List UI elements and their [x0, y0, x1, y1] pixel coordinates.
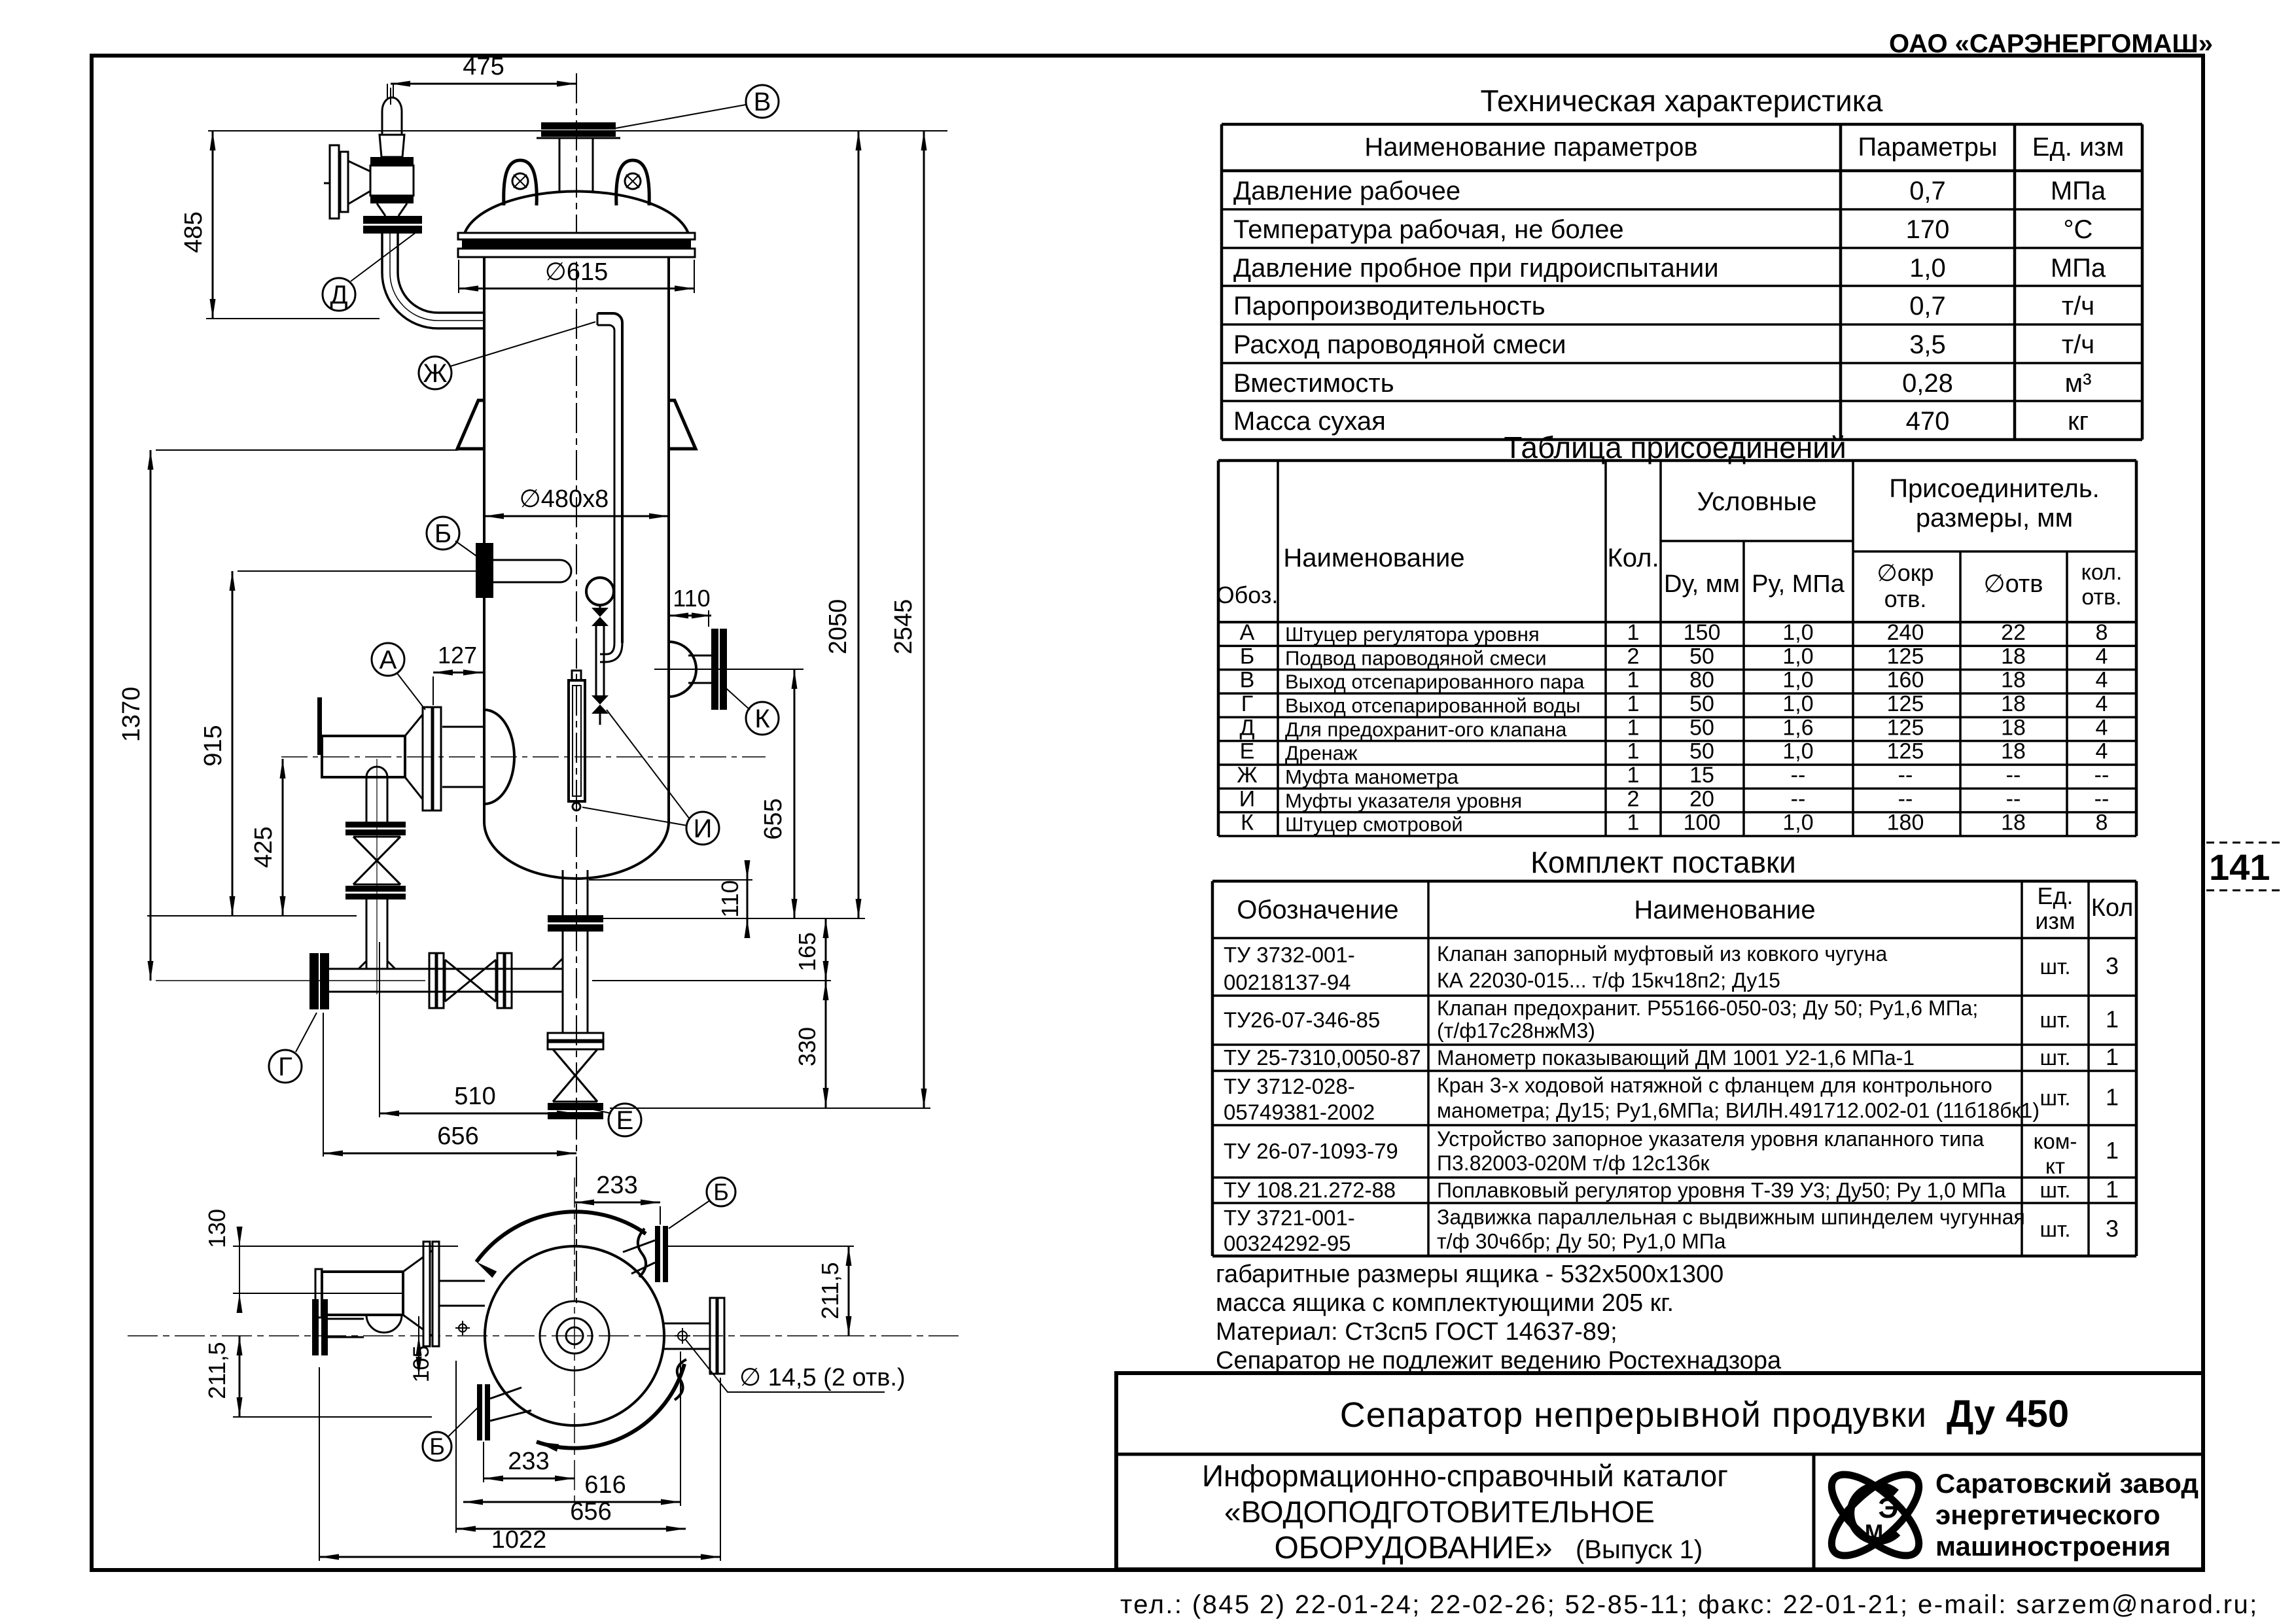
- svg-text:(Выпуск 1): (Выпуск 1): [1576, 1535, 1703, 1564]
- svg-text:энергетического: энергетического: [1935, 1499, 2161, 1530]
- dimension 165: [592, 918, 831, 981]
- svg-text:475: 475: [463, 53, 504, 80]
- svg-text:233: 233: [596, 1172, 637, 1199]
- svg-text:Кол: Кол: [2091, 894, 2134, 922]
- svg-text:Поплавковый регулятор уровня Т: Поплавковый регулятор уровня Т-39 У3; Ду…: [1437, 1179, 2006, 1202]
- label circle Zh: [419, 322, 595, 389]
- svg-text:шт.: шт.: [2040, 954, 2070, 979]
- svg-text:кол.: кол.: [2081, 560, 2123, 585]
- svg-text:4: 4: [2096, 691, 2108, 716]
- svg-text:В: В: [1240, 668, 1255, 693]
- svg-text:1: 1: [2106, 1043, 2119, 1070]
- plan dimension 211.5 right: [817, 1246, 852, 1336]
- svg-text:3,5: 3,5: [1909, 330, 1946, 359]
- svg-text:470: 470: [1906, 407, 1950, 436]
- svg-text:125: 125: [1887, 715, 1924, 740]
- svg-text:И: И: [1239, 786, 1255, 811]
- svg-text:150: 150: [1684, 620, 1721, 645]
- plan label B bottom: [423, 1408, 478, 1461]
- drain valve under A: [345, 759, 406, 994]
- svg-text:20: 20: [1689, 786, 1714, 811]
- svg-text:1: 1: [1627, 811, 1640, 835]
- svg-text:Сепаратор не подлежит ведению: Сепаратор не подлежит ведению Ростехнадз…: [1216, 1347, 1782, 1374]
- label circle D: [323, 230, 419, 311]
- svg-text:00218137-94: 00218137-94: [1224, 970, 1351, 994]
- svg-text:т/ф 30ч6бр; Ду 50; Ру1,0 МПа: т/ф 30ч6бр; Ду 50; Ру1,0 МПа: [1437, 1230, 1726, 1253]
- svg-text:Обоз.: Обоз.: [1216, 582, 1279, 608]
- svg-text:И: И: [694, 814, 713, 843]
- svg-text:Присоединитель.: Присоединитель.: [1889, 474, 2100, 503]
- svg-text:160: 160: [1887, 668, 1924, 693]
- svg-text:Задвижка параллельная с выдвиж: Задвижка параллельная с выдвижным шпинде…: [1437, 1205, 2025, 1229]
- plan dimension 130 left: [203, 1209, 458, 1313]
- svg-text:Pу, МПа: Pу, МПа: [1752, 570, 1845, 598]
- plan nozzle B top: [623, 1226, 854, 1282]
- svg-text:изм: изм: [2035, 907, 2075, 934]
- plan nozzle B bottom: [477, 1384, 531, 1440]
- svg-text:211,5: 211,5: [203, 1342, 230, 1399]
- svg-text:Ед. изм: Ед. изм: [2032, 133, 2124, 162]
- svg-text:--: --: [1898, 763, 1913, 788]
- bottom nozzle pipe: [548, 870, 603, 1033]
- svg-text:ТУ 3732-001-: ТУ 3732-001-: [1224, 943, 1355, 967]
- svg-text:2: 2: [1627, 786, 1640, 811]
- nozzle V top flange: [537, 122, 620, 193]
- svg-text:127: 127: [438, 642, 477, 669]
- title block main title: [1340, 1393, 2069, 1435]
- svg-text:Обозначение: Обозначение: [1237, 896, 1398, 924]
- title block catalog name: [1202, 1459, 1728, 1565]
- dimension 475: [391, 53, 576, 105]
- svg-text:отв.: отв.: [1884, 585, 1927, 612]
- dimension 915: [200, 571, 236, 916]
- dimension phi480x8: [484, 485, 669, 519]
- dimension 510: [380, 942, 576, 1117]
- svg-text:2: 2: [1627, 644, 1640, 669]
- level gauge I glass: [569, 671, 585, 811]
- svg-text:Сепаратор непрерывной продувки: Сепаратор непрерывной продувки: [1340, 1395, 1927, 1435]
- title block frame: [1116, 1373, 2203, 1569]
- svg-text:656: 656: [570, 1498, 611, 1526]
- dimension 110 bottom: [589, 860, 752, 938]
- label circle E: [588, 1104, 641, 1136]
- vessel vertical centerline: [576, 73, 577, 1303]
- svg-text:Температура рабочая, не более: Температура рабочая, не более: [1233, 215, 1624, 244]
- svg-text:Г: Г: [1241, 691, 1253, 716]
- svg-text:22: 22: [2001, 620, 2026, 645]
- svg-text:110: 110: [716, 880, 743, 917]
- svg-text:Ж: Ж: [1237, 763, 1257, 788]
- vessel top dome head: [465, 192, 688, 234]
- svg-text:В: В: [754, 88, 771, 116]
- svg-text:80: 80: [1689, 668, 1714, 693]
- inlet distribution pipe inside vessel: [238, 560, 571, 582]
- label circle A: [372, 643, 425, 710]
- table 3 title: [1530, 845, 1796, 879]
- outlet flange G: [309, 953, 329, 1009]
- svg-text:ТУ26-07-346-85: ТУ26-07-346-85: [1224, 1008, 1380, 1032]
- plan dimension 211.5 left: [203, 1336, 432, 1417]
- svg-text:--: --: [1791, 763, 1806, 788]
- phi 14.5 hole callout: [686, 1340, 906, 1392]
- lifting lug left: [504, 160, 537, 205]
- svg-text:130: 130: [203, 1209, 230, 1248]
- svg-text:1: 1: [1627, 739, 1640, 764]
- svg-text:∅ 14,5 (2 отв.): ∅ 14,5 (2 отв.): [739, 1364, 906, 1391]
- dimension 330: [794, 981, 829, 1108]
- svg-text:кг: кг: [2068, 407, 2089, 436]
- svg-text:Г: Г: [278, 1053, 292, 1081]
- svg-text:«ВОДОПОДГОТОВИТЕЛЬНОЕ: «ВОДОПОДГОТОВИТЕЛЬНОЕ: [1224, 1495, 1655, 1529]
- svg-text:Параметры: Параметры: [1858, 133, 1997, 162]
- label circle I: [582, 710, 719, 845]
- delivery set table: [1212, 881, 2136, 1256]
- support lug left: [457, 400, 484, 449]
- svg-text:2050: 2050: [824, 599, 852, 655]
- svg-text:К: К: [754, 705, 770, 733]
- svg-text:1: 1: [1627, 715, 1640, 740]
- svg-text:125: 125: [1887, 691, 1924, 716]
- table 1 title: [1481, 84, 1883, 118]
- svg-text:Подвод пароводяной смеси: Подвод пароводяной смеси: [1285, 646, 1547, 669]
- phone footer line: [1120, 1590, 2259, 1619]
- gauge valve upper: [592, 608, 609, 626]
- svg-text:Расход пароводяной смеси: Расход пароводяной смеси: [1233, 330, 1566, 359]
- table 2 title: [1504, 430, 1846, 464]
- svg-text:656: 656: [437, 1123, 478, 1150]
- dimension 425: [147, 759, 357, 916]
- svg-text:А: А: [1240, 620, 1255, 645]
- svg-text:(т/ф17с28нжМ3): (т/ф17с28нжМ3): [1437, 1019, 1595, 1043]
- svg-text:1,0: 1,0: [1782, 644, 1813, 669]
- svg-text:18: 18: [2001, 715, 2026, 740]
- dimension 2050: [592, 131, 865, 918]
- svg-text:шт.: шт.: [2040, 1178, 2070, 1202]
- svg-text:15: 15: [1689, 763, 1714, 788]
- svg-text:1: 1: [1627, 668, 1640, 693]
- vessel shell walls: [484, 257, 669, 822]
- svg-text:50: 50: [1689, 644, 1714, 669]
- svg-text:1: 1: [2106, 1176, 2119, 1203]
- svg-text:05749381-2002: 05749381-2002: [1224, 1100, 1375, 1125]
- svg-text:1: 1: [1627, 620, 1640, 645]
- plan dimension 616: [463, 1352, 680, 1506]
- table technical characteristics: [1222, 124, 2142, 440]
- svg-text:8: 8: [2096, 811, 2108, 835]
- steam swirl arrow bottom: [537, 1359, 686, 1452]
- svg-text:--: --: [2094, 763, 2110, 788]
- svg-text:Материал: Ст3сп5 ГОСТ 14637-89: Материал: Ст3сп5 ГОСТ 14637-89;: [1216, 1318, 1617, 1346]
- svg-text:ТУ 3712-028-: ТУ 3712-028-: [1224, 1074, 1355, 1098]
- svg-text:шт.: шт.: [2040, 1086, 2070, 1110]
- svg-text:4: 4: [2096, 644, 2108, 669]
- svg-text:Давление рабочее: Давление рабочее: [1233, 177, 1460, 205]
- dimension 110 K: [669, 585, 711, 627]
- svg-text:Д: Д: [330, 281, 347, 309]
- svg-text:141: 141: [2209, 846, 2270, 888]
- svg-text:Ж: Ж: [423, 359, 448, 388]
- svg-text:18: 18: [2001, 668, 2026, 693]
- svg-text:--: --: [2006, 763, 2021, 788]
- svg-text:МПа: МПа: [2051, 177, 2106, 205]
- svg-text:50: 50: [1689, 691, 1714, 716]
- svg-text:Для предохранит-ого клапана: Для предохранит-ого клапана: [1285, 718, 1567, 741]
- svg-text:Манометр показывающий ДМ 1001: Манометр показывающий ДМ 1001 У2-1,6 МПа…: [1437, 1046, 1915, 1070]
- svg-text:Условные: Условные: [1697, 487, 1816, 516]
- plan dimension 233 top: [574, 1172, 660, 1225]
- svg-text:Вместимость: Вместимость: [1233, 369, 1394, 398]
- svg-text:Наименование: Наименование: [1283, 544, 1464, 572]
- svg-text:ТУ 25-7310,0050-87: ТУ 25-7310,0050-87: [1224, 1045, 1421, 1070]
- sight nozzle K: [654, 629, 804, 710]
- svg-text:--: --: [1898, 786, 1913, 811]
- safety valve assembly D: [324, 84, 422, 234]
- svg-text:Клапан предохранит. Р55166-050: Клапан предохранит. Р55166-050-03; Ду 50…: [1437, 996, 1978, 1020]
- page number 141 box: [2206, 843, 2285, 890]
- svg-text:1,0: 1,0: [1782, 811, 1813, 835]
- svg-text:А: А: [380, 646, 397, 674]
- svg-text:4: 4: [2096, 668, 2108, 693]
- svg-text:К: К: [1241, 811, 1254, 835]
- svg-text:1,0: 1,0: [1782, 668, 1813, 693]
- svg-text:2545: 2545: [890, 599, 917, 655]
- svg-text:1,6: 1,6: [1782, 715, 1813, 740]
- dimension 1370: [118, 450, 458, 981]
- svg-text:м³: м³: [2065, 369, 2092, 398]
- plan vessel shell circle: [485, 1246, 664, 1425]
- svg-text:1,0: 1,0: [1782, 620, 1813, 645]
- svg-text:18: 18: [2001, 811, 2026, 835]
- svg-text:кт: кт: [2045, 1154, 2065, 1178]
- svg-text:3: 3: [2106, 1215, 2119, 1242]
- dimension phi615: [459, 258, 694, 293]
- vessel bottom elliptical head: [484, 822, 669, 879]
- svg-text:Паропроизводительность: Паропроизводительность: [1233, 292, 1545, 321]
- svg-text:Кол.: Кол.: [1607, 544, 1659, 572]
- svg-text:ТУ 108.21.272-88: ТУ 108.21.272-88: [1224, 1178, 1396, 1202]
- svg-text:Информационно-справочный катал: Информационно-справочный каталог: [1202, 1459, 1728, 1493]
- svg-text:Е: Е: [616, 1106, 634, 1135]
- svg-text:1370: 1370: [118, 687, 145, 742]
- svg-text:∅окр: ∅окр: [1877, 559, 1934, 586]
- table of connections: [1216, 461, 2136, 836]
- lifting lug right: [616, 160, 650, 205]
- svg-text:масса ящика с комплектующими 2: масса ящика с комплектующими 205 кг.: [1216, 1289, 1674, 1317]
- plan bolt hole right: [675, 1328, 690, 1344]
- svg-text:т/ч: т/ч: [2062, 292, 2094, 321]
- svg-text:4: 4: [2096, 715, 2108, 740]
- svg-text:Масса сухая: Масса сухая: [1233, 407, 1386, 436]
- svg-text:170: 170: [1906, 215, 1950, 244]
- svg-text:М: М: [1865, 1520, 1883, 1545]
- svg-text:отв.: отв.: [2081, 585, 2121, 610]
- svg-text:240: 240: [1887, 620, 1924, 645]
- svg-text:Dу, мм: Dу, мм: [1664, 570, 1740, 598]
- svg-text:Штуцер смотровой: Штуцер смотровой: [1285, 813, 1463, 836]
- plan flange G left: [312, 1299, 364, 1355]
- label circle G: [269, 1013, 317, 1083]
- pressure gauge manometer: [586, 578, 614, 608]
- support lug right: [669, 400, 696, 449]
- drain valve E: [548, 1033, 603, 1119]
- svg-text:18: 18: [2001, 739, 2026, 764]
- svg-text:Е: Е: [1240, 739, 1255, 764]
- svg-text:Муфты указателя уровня: Муфты указателя уровня: [1285, 789, 1522, 812]
- factory logo SEM: [1819, 1461, 1932, 1569]
- svg-text:П3.82003-020М т/ф 12с13бк: П3.82003-020М т/ф 12с13бк: [1437, 1151, 1710, 1175]
- svg-text:616: 616: [584, 1471, 626, 1499]
- svg-text:105: 105: [409, 1346, 434, 1383]
- svg-text:Б: Б: [1240, 644, 1254, 669]
- svg-text:шт.: шт.: [2040, 1008, 2070, 1032]
- svg-text:50: 50: [1689, 739, 1714, 764]
- girth flange pair: [458, 233, 695, 257]
- svg-text:50: 50: [1689, 715, 1714, 740]
- steam swirl arrow top: [476, 1212, 646, 1278]
- top reference extension line: [208, 130, 947, 131]
- gate valve on run: [429, 953, 512, 1008]
- plan sight nozzle stub right: [663, 1298, 724, 1374]
- svg-text:Б: Б: [713, 1179, 729, 1206]
- svg-text:18: 18: [2001, 644, 2026, 669]
- plan inner circles: [540, 1301, 609, 1370]
- svg-text:1,0: 1,0: [1782, 691, 1813, 716]
- svg-text:машиностроения: машиностроения: [1935, 1531, 2170, 1562]
- svg-text:1,0: 1,0: [1909, 254, 1946, 283]
- label circle V: [616, 85, 779, 128]
- bottom horizontal run pipe: [156, 958, 563, 992]
- plan nozzle A assembly: [315, 1242, 485, 1346]
- svg-text:125: 125: [1887, 739, 1924, 764]
- svg-text:4: 4: [2096, 739, 2108, 764]
- svg-text:100: 100: [1684, 811, 1721, 835]
- svg-text:0,28: 0,28: [1902, 369, 1953, 398]
- svg-text:1: 1: [2106, 1084, 2119, 1111]
- svg-text:110: 110: [673, 585, 710, 612]
- svg-text:Клапан запорный муфтовый из ко: Клапан запорный муфтовый из ковкого чугу…: [1437, 942, 1888, 966]
- svg-text:211,5: 211,5: [817, 1262, 843, 1319]
- svg-text:КА 22030-015... т/ф 15кч18п2;: КА 22030-015... т/ф 15кч18п2; Ду15: [1437, 969, 1780, 992]
- svg-text:ОБОРУДОВАНИЕ»: ОБОРУДОВАНИЕ»: [1274, 1531, 1552, 1565]
- svg-text:1022: 1022: [491, 1526, 547, 1554]
- svg-text:Выход отсепарированного пара: Выход отсепарированного пара: [1285, 671, 1585, 693]
- plan label B top: [669, 1178, 735, 1229]
- svg-text:Д: Д: [1239, 715, 1254, 740]
- label circle B-inlet: [427, 517, 478, 557]
- svg-text:ОАО «САРЭНЕРГОМАШ»: ОАО «САРЭНЕРГОМАШ»: [1889, 29, 2213, 58]
- svg-text:0,7: 0,7: [1909, 292, 1946, 321]
- plan dimension 1022: [319, 1367, 720, 1561]
- svg-text:165: 165: [794, 932, 821, 971]
- svg-text:Устройство запорное указателя: Устройство запорное указателя уровня кла…: [1437, 1127, 1984, 1151]
- svg-text:655: 655: [760, 798, 787, 839]
- label circle K: [722, 685, 779, 735]
- svg-text:∅480х8: ∅480х8: [520, 485, 609, 513]
- plan dimension 105: [409, 1316, 434, 1382]
- svg-text:3: 3: [2106, 952, 2119, 979]
- svg-text:Наименование: Наименование: [1634, 896, 1815, 924]
- svg-text:915: 915: [200, 725, 227, 766]
- svg-text:манометра; Ду15; Ру1,6МПа; ВИЛ: манометра; Ду15; Ру1,6МПа; ВИЛН.491712.0…: [1437, 1098, 2040, 1122]
- svg-text:Техническая характеристика: Техническая характеристика: [1481, 84, 1883, 118]
- svg-text:ТУ 3721-001-: ТУ 3721-001-: [1224, 1206, 1355, 1230]
- plan dimension 656: [456, 1361, 686, 1533]
- svg-text:1: 1: [2106, 1137, 2119, 1164]
- svg-text:Саратовский завод: Саратовский завод: [1935, 1468, 2199, 1499]
- dimension 127: [433, 642, 483, 705]
- safety valve outlet pipe elbow: [382, 234, 484, 328]
- dimension 485: [180, 131, 380, 319]
- svg-text:Б: Б: [429, 1433, 445, 1460]
- svg-text:шт.: шт.: [2040, 1045, 2070, 1070]
- svg-text:18: 18: [2001, 691, 2026, 716]
- company header OAO SARENERGOMASH: [1889, 29, 2213, 58]
- svg-text:233: 233: [508, 1448, 549, 1475]
- plan view centerlines: [128, 1178, 962, 1505]
- svg-text:Давление пробное при гидроиспы: Давление пробное при гидроиспытании: [1233, 254, 1719, 283]
- plan bolt hole left: [455, 1321, 470, 1335]
- svg-text:--: --: [1791, 786, 1806, 811]
- manometer pipe Zh: [597, 313, 622, 662]
- svg-text:ТУ 26-07-1093-79: ТУ 26-07-1093-79: [1224, 1139, 1398, 1163]
- svg-text:МПа: МПа: [2051, 254, 2106, 283]
- notes under tables: [1216, 1261, 1782, 1374]
- svg-text:425: 425: [250, 826, 277, 867]
- plan dimension 233 bottom: [484, 1442, 574, 1482]
- svg-text:Выход отсепарированной воды: Выход отсепарированной воды: [1285, 694, 1580, 717]
- svg-text:Ду 450: Ду 450: [1947, 1393, 2069, 1435]
- svg-text:Наименование параметров: Наименование параметров: [1364, 133, 1697, 162]
- svg-text:125: 125: [1887, 644, 1924, 669]
- svg-text:1,0: 1,0: [1782, 739, 1813, 764]
- svg-text:Кран 3-х ходовой натяжной с фл: Кран 3-х ходовой натяжной с фланцем для …: [1437, 1073, 1992, 1097]
- dimension 655: [760, 669, 798, 918]
- svg-text:Э: Э: [1878, 1492, 1898, 1524]
- svg-text:Муфта манометра: Муфта манометра: [1285, 765, 1459, 788]
- gauge piping and lower valve: [592, 626, 609, 725]
- svg-text:1: 1: [1627, 691, 1640, 716]
- svg-text:00324292-95: 00324292-95: [1224, 1231, 1351, 1255]
- svg-text:Комплект поставки: Комплект поставки: [1530, 845, 1796, 879]
- svg-text:330: 330: [794, 1027, 821, 1066]
- dimension 656 front: [323, 1013, 576, 1157]
- svg-text:шт.: шт.: [2040, 1217, 2070, 1242]
- svg-text:Штуцер регулятора уровня: Штуцер регулятора уровня: [1285, 623, 1540, 646]
- svg-text:ком-: ком-: [2034, 1129, 2077, 1153]
- svg-text:Б: Б: [434, 519, 451, 548]
- inlet nozzle B flange: [476, 543, 493, 598]
- svg-text:габаритные размеры ящика - 53: габаритные размеры ящика - 532х500х1300: [1216, 1261, 1723, 1288]
- svg-text:∅615: ∅615: [545, 258, 609, 286]
- svg-text:180: 180: [1887, 811, 1924, 835]
- factory name text: [1935, 1468, 2199, 1562]
- svg-text:--: --: [2094, 786, 2110, 811]
- svg-text:1: 1: [1627, 763, 1640, 788]
- svg-text:т/ч: т/ч: [2062, 330, 2094, 359]
- svg-text:--: --: [2006, 786, 2021, 811]
- svg-text:485: 485: [180, 211, 207, 253]
- svg-text:размеры, мм: размеры, мм: [1916, 504, 2073, 532]
- svg-text:0,7: 0,7: [1909, 177, 1946, 205]
- nozzle A level regulator: [281, 697, 766, 811]
- dimension 2545: [610, 131, 930, 1108]
- svg-text:8: 8: [2096, 620, 2108, 645]
- svg-text:°С: °С: [2064, 215, 2093, 244]
- svg-text:1: 1: [2106, 1006, 2119, 1033]
- svg-text:Ед.: Ед.: [2037, 882, 2073, 909]
- svg-text:тел.: (845 2) 22-01-24; 22-02-: тел.: (845 2) 22-01-24; 22-02-26; 52-85-…: [1120, 1590, 2259, 1619]
- svg-text:Дренаж: Дренаж: [1285, 742, 1358, 765]
